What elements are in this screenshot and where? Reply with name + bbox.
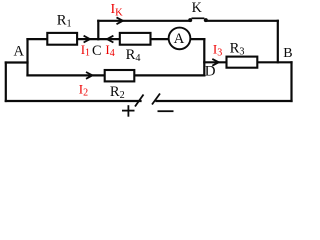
arrowheads (current directions): [84, 17, 219, 78]
resistor R3: [227, 57, 258, 68]
wire top rail left (C to switch): [98, 20, 190, 22]
wire A branch left: [6, 61, 28, 63]
wire C to R4: [98, 38, 120, 40]
wire R1 to C: [77, 38, 98, 40]
wire left rail: [5, 63, 7, 102]
wire D riser: [203, 39, 205, 75]
svg-text:B: B: [283, 46, 292, 61]
wire D to R3: [204, 61, 226, 63]
resistor R4: [120, 33, 151, 45]
wire A to R2: [28, 74, 105, 76]
arrow I1: [84, 36, 90, 43]
resistor R1: [47, 33, 77, 45]
arrow I2: [86, 72, 92, 79]
arrow I3: [212, 59, 218, 66]
wire A to R1: [28, 38, 48, 40]
wire R3 to right rail: [257, 61, 291, 63]
wire A riser: [26, 39, 28, 75]
svg-text:C: C: [92, 43, 102, 59]
wire top rail right (switch to corner): [206, 20, 278, 22]
svg-text:D: D: [205, 64, 216, 80]
wire bottom rail right: [157, 100, 292, 102]
wire C riser: [97, 21, 99, 39]
svg-text:K: K: [192, 0, 203, 16]
svg-text:A: A: [14, 44, 25, 60]
battery cell: [122, 94, 174, 117]
svg-text:A: A: [174, 31, 185, 47]
wire right lower rail: [290, 62, 292, 101]
wire right top rail drop: [277, 21, 279, 63]
wire bottom rail left: [6, 100, 141, 102]
switch K: [188, 18, 208, 22]
arrow IK: [117, 17, 123, 24]
arrow I4: [107, 36, 113, 43]
wire R4 to ammeter: [151, 38, 169, 40]
ammeter A: [169, 28, 191, 50]
wire R2 to D riser: [134, 74, 204, 76]
wire ammeter to D riser: [190, 38, 204, 40]
resistor R2: [105, 70, 135, 81]
